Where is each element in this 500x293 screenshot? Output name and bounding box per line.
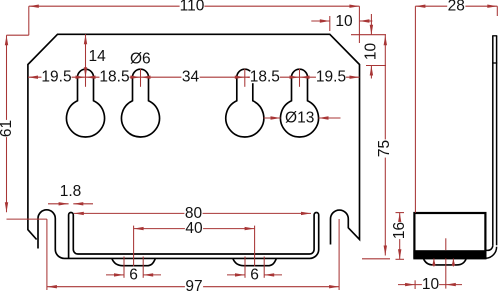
dim 10 side view bottom <box>398 284 446 286</box>
svg-text:110: 110 <box>180 0 205 15</box>
dim 28 right extension <box>496 6 498 16</box>
dim diameter 13 leader <box>264 117 281 119</box>
dim 110 left extension <box>28 6 30 35</box>
dim 75 right <box>384 35 386 256</box>
side view sheet top edge tick <box>492 35 497 37</box>
dim 14 <box>85 34 87 77</box>
side view bottom black bar <box>413 250 486 258</box>
svg-text:19.5: 19.5 <box>316 69 346 86</box>
side view bottom bend inner <box>485 245 492 250</box>
foot bump left (front view) <box>112 259 155 266</box>
svg-text:10: 10 <box>362 43 379 61</box>
svg-text:10: 10 <box>335 13 353 30</box>
svg-text:6: 6 <box>129 266 138 283</box>
keyhole slot 2 <box>122 69 160 137</box>
dim 61 top extension <box>7 34 29 36</box>
svg-text:10: 10 <box>422 276 440 293</box>
side view foot bump <box>423 258 466 265</box>
side foot edge ticks <box>433 259 435 267</box>
top edge level extension <box>351 34 386 36</box>
dim 16 ticks <box>396 212 405 214</box>
side view channel box <box>414 213 485 258</box>
svg-text:28: 28 <box>448 0 465 15</box>
svg-text:97: 97 <box>185 278 202 293</box>
side view chamfer edge tick <box>492 62 497 64</box>
dim 97 bottom <box>47 286 339 288</box>
side view bottom bend outer <box>486 247 497 258</box>
bracket plate outline <box>28 34 360 244</box>
keyhole slot 4 <box>281 69 319 137</box>
svg-text:34: 34 <box>182 69 200 86</box>
dim 28 left extension <box>414 6 416 213</box>
dim 80 <box>74 212 311 214</box>
keyhole center tick + bowtie arrows <box>85 69 87 87</box>
svg-text:19.5: 19.5 <box>41 69 71 86</box>
svg-text:6: 6 <box>250 266 259 283</box>
dim 97 right extension <box>338 219 340 290</box>
keyhole slot 1 <box>67 69 105 137</box>
channel front wall (U shape inner lines) <box>69 213 317 259</box>
keyhole center tick + bowtie arrows <box>244 69 246 87</box>
svg-text:16: 16 <box>391 222 408 239</box>
svg-text:18.5: 18.5 <box>250 69 280 86</box>
left foot edge ticks <box>123 257 125 278</box>
dim 1.8 <box>48 203 69 205</box>
svg-text:1.8: 1.8 <box>60 183 82 200</box>
chain dim line (19.5/18.5/34/18.5/19.5) <box>28 76 360 78</box>
side foot center line <box>445 238 447 250</box>
svg-text:61: 61 <box>0 120 15 137</box>
keyhole slot 3 <box>226 69 264 137</box>
svg-text:14: 14 <box>89 48 107 65</box>
foot bump right (front view) <box>233 259 276 266</box>
side view sheet (double vertical lines) <box>492 36 494 246</box>
foot center extension lines <box>133 226 135 267</box>
right foot edge ticks <box>244 257 246 278</box>
svg-text:40: 40 <box>185 220 203 237</box>
chamfer start extension tick <box>329 16 331 31</box>
dim 10 chamfer vertical <box>370 14 372 35</box>
dim 6 right foot <box>227 274 245 276</box>
dim 61 left <box>6 35 8 212</box>
dim 10 chamfer horizontal <box>311 20 330 22</box>
dim 28 side view top <box>415 5 497 7</box>
dim 6 left foot <box>106 274 124 276</box>
dim 40 <box>134 228 255 230</box>
svg-text:75: 75 <box>376 140 393 157</box>
chamfer bottom level extension <box>366 65 386 67</box>
dim 16 side view <box>399 213 401 260</box>
dim 75 bottom extension <box>362 258 390 260</box>
svg-text:Ø6: Ø6 <box>130 51 151 68</box>
svg-text:Ø13: Ø13 <box>285 110 314 127</box>
box left edge tick <box>414 280 416 289</box>
keyhole center tick + bowtie arrows <box>299 69 301 87</box>
keyhole center tick + bowtie arrows <box>140 69 142 87</box>
dim 110 top <box>29 5 360 7</box>
left spring clip hook <box>38 210 319 259</box>
dim 110 right extension <box>358 6 360 43</box>
svg-text:18.5: 18.5 <box>99 69 129 86</box>
dim 97 left extension elbow <box>7 218 47 220</box>
